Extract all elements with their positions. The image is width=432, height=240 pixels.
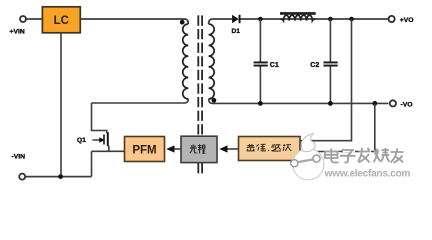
wire secondary top to D1 [209, 19, 233, 24]
wire primary bottom [92, 99, 189, 103]
reference / error-amp block [239, 137, 301, 161]
arrow reference block to optocoupler [227, 148, 239, 150]
transformer core [198, 15, 202, 173]
svg-text:Q1: Q1 [77, 137, 86, 144]
svg-text:PFM: PFM [132, 145, 156, 157]
capacitor C2 [310, 19, 337, 103]
transformer primary winding [183, 24, 189, 99]
node feedback top tap [349, 17, 354, 22]
optocoupler block [181, 136, 217, 162]
terminal +VIN [20, 16, 26, 22]
svg-text:-VIN: -VIN [12, 154, 26, 161]
wire secondary bottom to -VO rail [209, 99, 389, 104]
wire D1 to +VO [241, 18, 389, 20]
svg-text:+VO: +VO [400, 17, 414, 24]
LC filter block [42, 7, 80, 33]
wire primary bottom to Q1 drain [92, 103, 107, 133]
polarity dot secondary [212, 98, 217, 103]
polarity dot primary [180, 20, 185, 25]
inductor L core [280, 12, 316, 15]
wire +VIN to LC [26, 18, 42, 20]
node feedback bottom tap [372, 101, 377, 106]
watermark text [326, 149, 405, 164]
node C1 bottom [258, 101, 263, 106]
feedback wire from -VO rail [300, 103, 375, 151]
svg-text:C2: C2 [310, 62, 319, 69]
feedback wire from +VO rail [300, 19, 352, 141]
terminal +VO [389, 16, 395, 22]
terminal -VIN [19, 174, 25, 180]
wire Q1 source to -VIN rail [91, 151, 93, 176]
svg-text:LC: LC [54, 15, 69, 27]
wire LC bottom to -VIN rail [60, 33, 62, 177]
inductor L winding [281, 15, 316, 20]
arrow optocoupler to PFM [174, 148, 181, 150]
svg-text:C1: C1 [270, 62, 279, 69]
node C2 top [328, 17, 333, 22]
svg-text:www.elecfans.com: www.elecfans.com [324, 169, 411, 180]
PFM block [125, 137, 165, 162]
watermark logo [291, 134, 324, 180]
node C1 top [258, 17, 263, 22]
svg-text:-VO: -VO [401, 101, 413, 108]
reference block label (CJK approx) [247, 144, 292, 151]
capacitor C1 [254, 19, 279, 103]
optocoupler label (CJK approx) [190, 144, 206, 153]
node LC return junction [58, 174, 63, 179]
svg-text:+VIN: +VIN [10, 29, 25, 36]
wire -VIN rail [25, 176, 91, 178]
transformer secondary winding [209, 24, 215, 99]
node C2 bottom [328, 101, 333, 106]
diode D1 [232, 15, 241, 35]
transistor Q1 [77, 132, 108, 146]
terminal -VO [390, 100, 396, 106]
wire LC to transformer primary top [80, 19, 188, 24]
wire Q1 source to PFM [92, 146, 125, 152]
svg-text:D1: D1 [232, 28, 241, 35]
